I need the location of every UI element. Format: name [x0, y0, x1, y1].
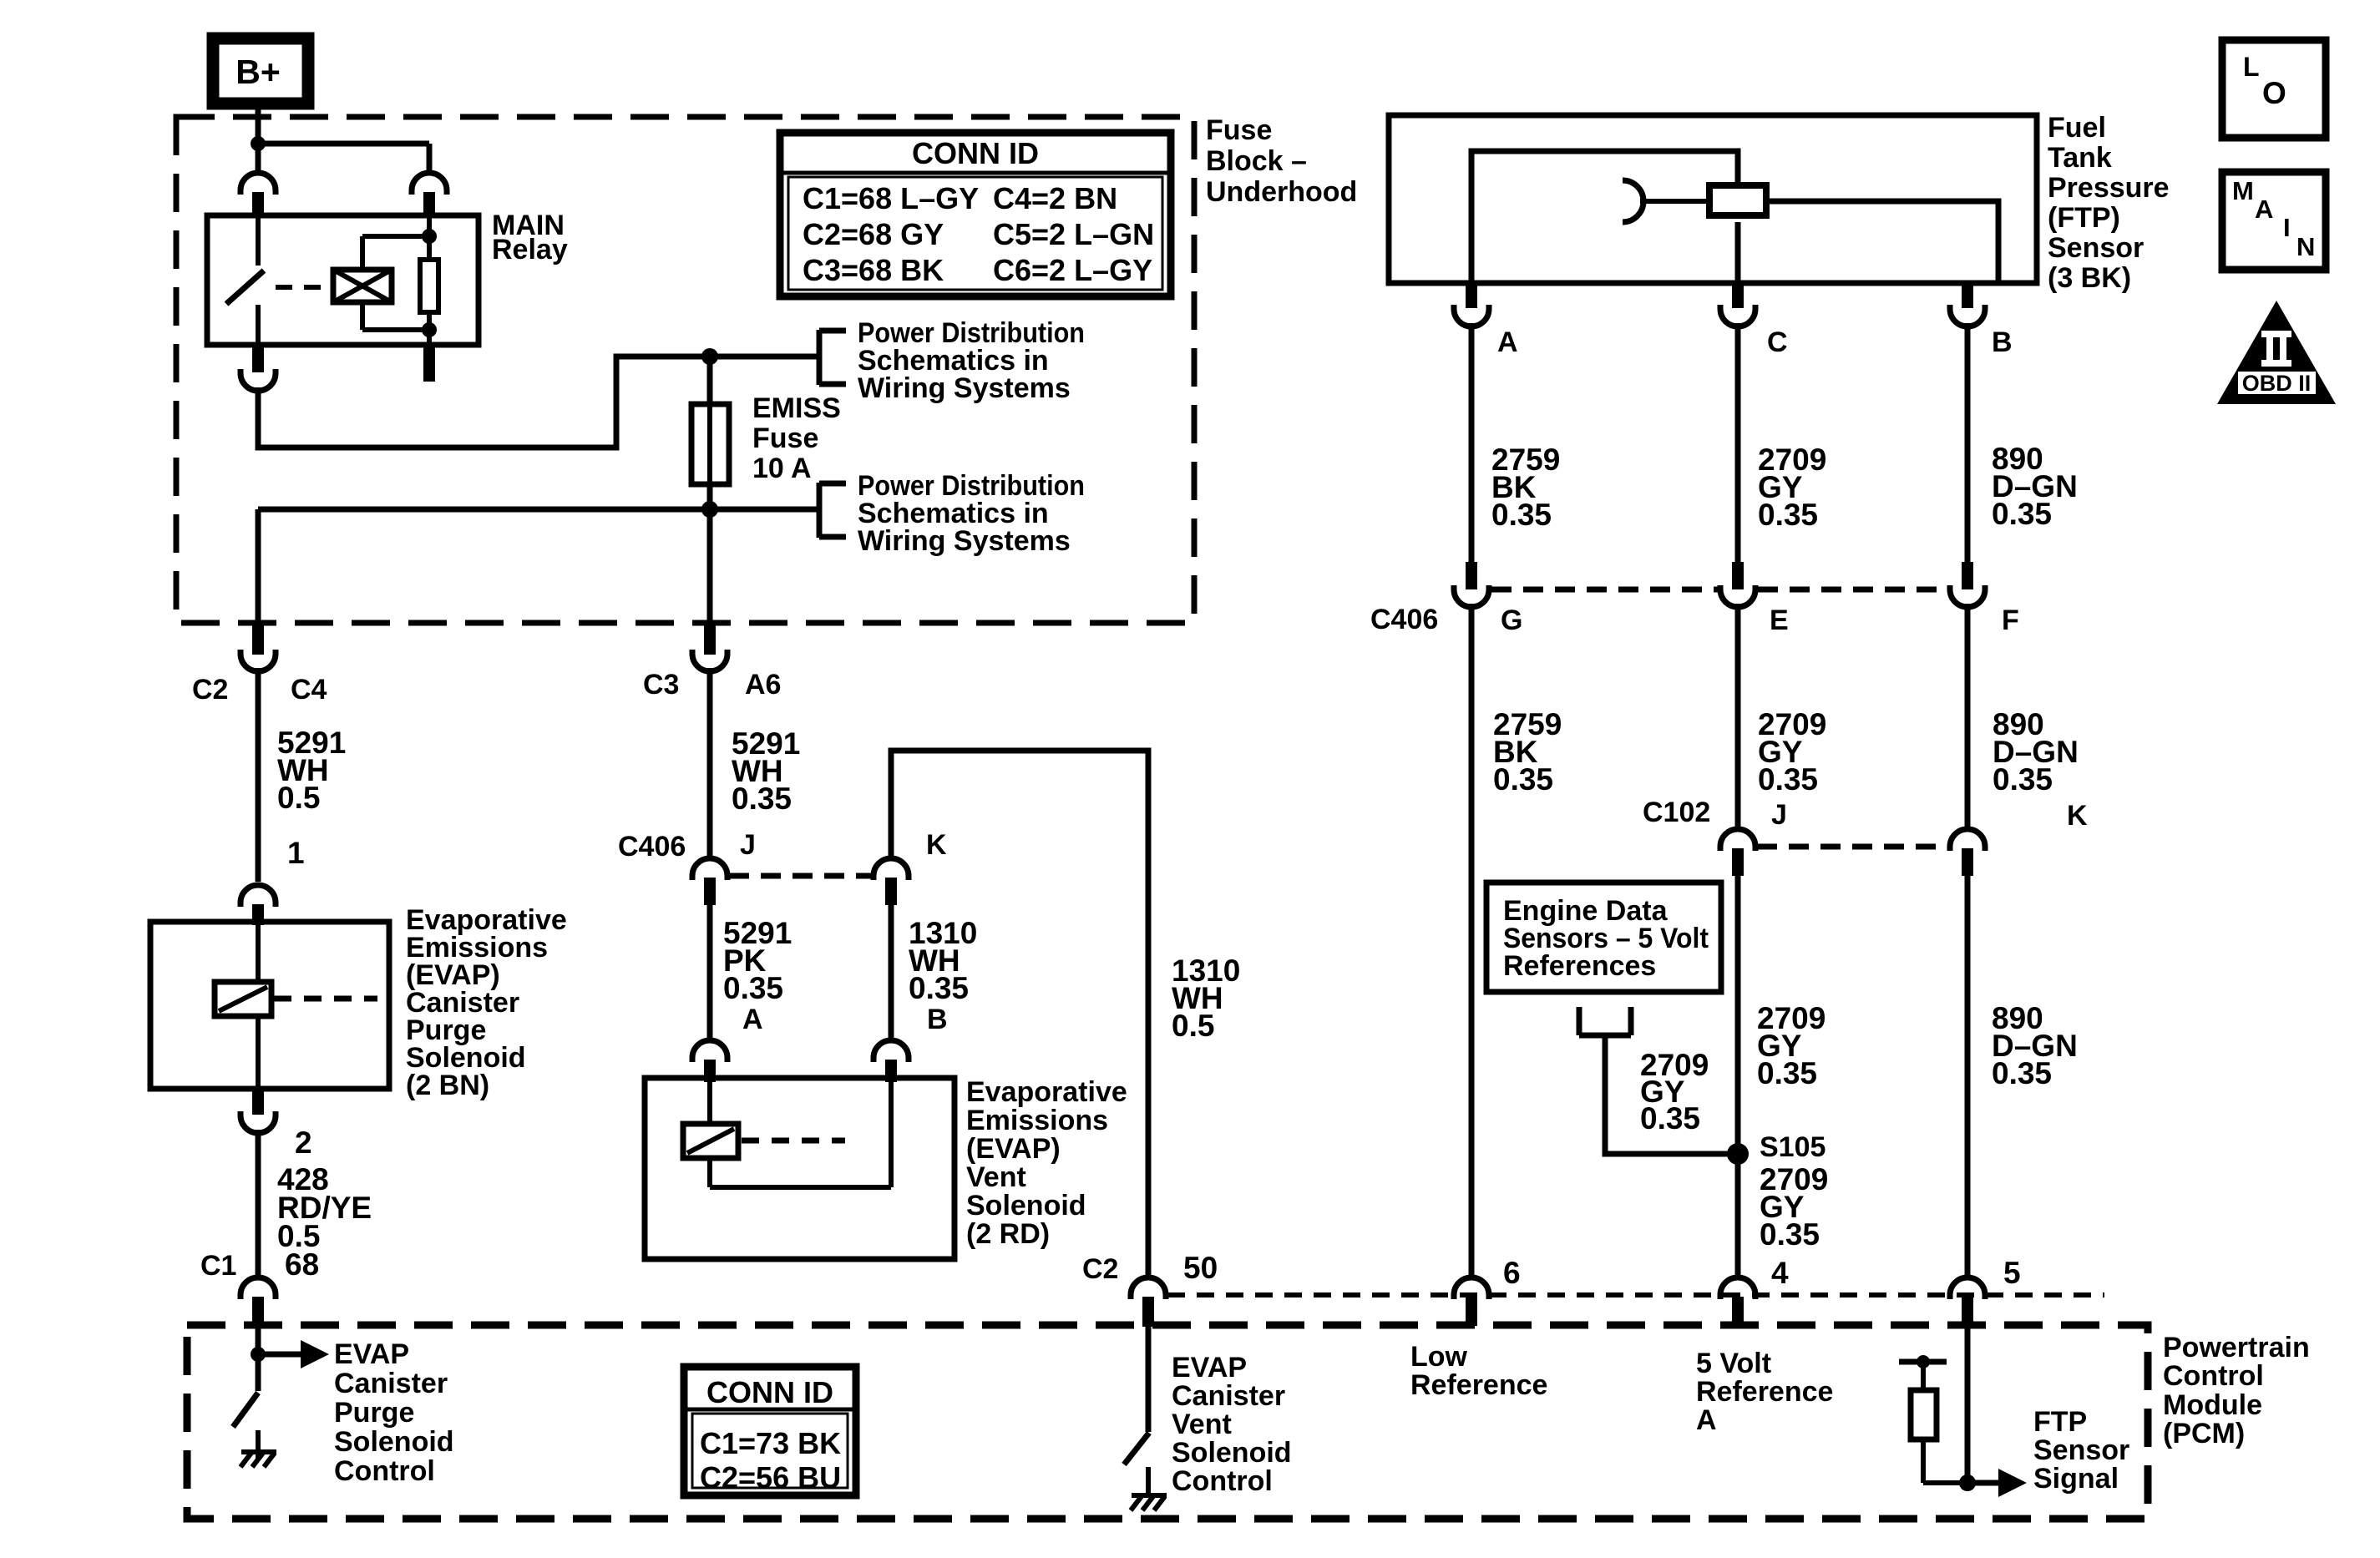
bracket power distribution 2: [817, 483, 823, 538]
relay resistor: [420, 260, 438, 312]
connector PCM 6: [1454, 1277, 1489, 1299]
wire 1310 WH 0.35: [889, 905, 894, 1038]
svg-text:0.35: 0.35: [1757, 1056, 1817, 1090]
wire 5291 WH 0.5: [256, 668, 261, 882]
wire 2709 GY 0.35 low: [1735, 876, 1741, 1275]
svg-text:10 A: 10 A: [752, 453, 812, 484]
purge solenoid coil: [256, 922, 261, 982]
power symbol B+: [213, 38, 308, 104]
svg-text:(2 RD): (2 RD): [966, 1218, 1050, 1250]
svg-text:Reference: Reference: [1410, 1369, 1547, 1401]
svg-text:C4=2 BN: C4=2 BN: [993, 181, 1117, 215]
svg-text:C3=68 BK: C3=68 BK: [803, 253, 944, 287]
svg-text:Canister: Canister: [1172, 1380, 1285, 1412]
svg-text:A6: A6: [745, 669, 781, 701]
icon LO box: [2222, 40, 2326, 138]
svg-text:Block –: Block –: [1206, 145, 1307, 177]
svg-text:0.5: 0.5: [277, 781, 320, 815]
svg-text:K: K: [2067, 800, 2088, 832]
svg-text:Fuel: Fuel: [2048, 112, 2106, 144]
connector relay output 87: [252, 345, 264, 372]
connector C2 C4: [252, 625, 264, 655]
svg-text:A: A: [742, 1004, 763, 1035]
relay coil: [333, 270, 392, 302]
svg-text:A: A: [1497, 326, 1518, 358]
svg-text:0.35: 0.35: [723, 971, 783, 1005]
connector C406 F: [1962, 562, 1973, 589]
svg-text:O: O: [2262, 76, 2286, 110]
svg-text:0.35: 0.35: [1640, 1101, 1700, 1136]
wire 890 D-GN 0.35 low: [1965, 876, 1971, 1275]
svg-text:68: 68: [285, 1247, 319, 1282]
wire 2709 GY 0.35 top: [1735, 323, 1741, 562]
relay MAIN box: [207, 215, 479, 345]
FTP transducer crescent: [1623, 180, 1643, 222]
svg-text:B: B: [927, 1004, 948, 1035]
connector C3 A6: [704, 625, 716, 655]
relay switch-coil dashed link: [276, 285, 332, 290]
svg-text:References: References: [1503, 950, 1656, 982]
svg-text:I: I: [2283, 213, 2291, 242]
svg-text:OBD II: OBD II: [2242, 371, 2312, 396]
svg-text:Solenoid: Solenoid: [334, 1426, 454, 1458]
connector C102 K: [1950, 829, 1985, 851]
switch purge: [233, 1393, 258, 1427]
wire C406 G-E dashed: [1491, 587, 1718, 593]
icon OBD II triangle: [2217, 301, 2336, 404]
fuse block underhood dashed box: [176, 117, 1194, 623]
svg-text:Low: Low: [1410, 1341, 1468, 1373]
svg-text:Control: Control: [334, 1455, 435, 1487]
svg-text:Tank: Tank: [2048, 142, 2112, 174]
svg-text:Vent: Vent: [966, 1161, 1026, 1193]
relay switch: [256, 215, 261, 266]
connector relay pin 30: [241, 173, 276, 195]
svg-text:Fuse: Fuse: [752, 422, 818, 454]
svg-text:Signal: Signal: [2033, 1463, 2119, 1495]
FTP sensor box: [1389, 115, 2037, 283]
svg-text:C3: C3: [643, 669, 679, 701]
svg-text:F: F: [2002, 604, 2019, 636]
svg-text:CONN ID: CONN ID: [706, 1375, 833, 1409]
arrow EVAP canister purge: [258, 1352, 302, 1358]
svg-text:0.35: 0.35: [1493, 762, 1553, 797]
svg-text:B+: B+: [235, 53, 281, 91]
svg-text:EVAP: EVAP: [1172, 1352, 1247, 1383]
svg-text:CONN ID: CONN ID: [912, 136, 1039, 170]
svg-text:B: B: [1992, 326, 2013, 358]
svg-text:Control: Control: [2163, 1360, 2264, 1392]
svg-text:0.5: 0.5: [1172, 1009, 1214, 1043]
bracket power distribution 1: [817, 330, 823, 385]
svg-text:5: 5: [2003, 1256, 2021, 1290]
wire B+ to relay: [256, 104, 261, 170]
svg-text:Pressure: Pressure: [2048, 172, 2170, 204]
svg-text:Sensor: Sensor: [2048, 232, 2144, 264]
connector stub engine data: [1577, 1007, 1582, 1035]
node purge arrow junction: [251, 1347, 266, 1362]
connector C2 50: [1131, 1277, 1166, 1299]
svg-text:0.35: 0.35: [732, 782, 792, 816]
svg-text:Module: Module: [2163, 1389, 2262, 1421]
wire 428 RD/YE 0.5: [256, 1130, 261, 1275]
svg-text:C1: C1: [200, 1250, 236, 1282]
wire fuse output bus: [258, 507, 817, 513]
svg-text:6: 6: [1503, 1256, 1521, 1290]
wire 2759 BK 0.35 mid: [1469, 604, 1475, 1275]
node fuse feed junction: [701, 348, 718, 365]
svg-text:C2=68 GY: C2=68 GY: [803, 217, 944, 251]
fuse EMISS 10A: [691, 404, 729, 484]
svg-text:4: 4: [1771, 1256, 1789, 1290]
svg-text:2: 2: [295, 1126, 312, 1160]
connector FTP pin A: [1466, 284, 1477, 308]
svg-text:0.35: 0.35: [1491, 498, 1552, 532]
svg-text:Relay: Relay: [492, 234, 568, 266]
svg-text:A: A: [2255, 195, 2273, 224]
svg-text:C5=2 L–GN: C5=2 L–GN: [993, 217, 1154, 251]
connector purge solenoid pin 2: [252, 1089, 264, 1115]
svg-text:Solenoid: Solenoid: [966, 1190, 1086, 1222]
svg-text:0.35: 0.35: [1992, 497, 2052, 531]
svg-text:Vent: Vent: [1172, 1409, 1232, 1440]
svg-text:G: G: [1501, 604, 1522, 636]
svg-text:Powertrain: Powertrain: [2163, 1332, 2310, 1363]
svg-text:E: E: [1770, 604, 1789, 636]
svg-text:EMISS: EMISS: [752, 392, 841, 424]
svg-text:0.35: 0.35: [1758, 762, 1818, 797]
connector PCM 4: [1720, 1277, 1755, 1299]
svg-text:C: C: [1767, 326, 1788, 358]
wire junction down to fuse: [707, 357, 713, 404]
node FTP signal junction: [1959, 1475, 1976, 1491]
svg-text:M: M: [2232, 176, 2254, 205]
engine data sensors box: [1486, 883, 1721, 992]
relay coil stub pin: [423, 345, 435, 382]
svg-text:50: 50: [1183, 1251, 1218, 1285]
FTP internal wiring: [1471, 151, 1738, 283]
connector PCM 5: [1950, 1277, 1985, 1299]
connector relay coil pin: [412, 173, 447, 195]
OBD II pillar: [2261, 331, 2291, 337]
svg-text:Wiring Systems: Wiring Systems: [858, 525, 1071, 557]
wire purge control: [256, 1326, 261, 1391]
wire C102 J-K dashed: [1757, 844, 1948, 850]
wire K up and over to C2 50: [891, 751, 1148, 1275]
svg-text:A: A: [1696, 1404, 1717, 1436]
FTP transducer element: [1709, 185, 1766, 215]
wire relay output to fuse: [258, 357, 817, 448]
svg-text:0.35: 0.35: [1758, 498, 1818, 532]
connector C1 68: [241, 1277, 276, 1299]
wire 2709 GY 0.35 branch: [1605, 1035, 1738, 1154]
svg-text:1: 1: [287, 836, 305, 870]
wire 2759 BK 0.35 top: [1469, 323, 1475, 562]
connector C406 K: [874, 858, 909, 880]
svg-text:C4: C4: [291, 674, 327, 706]
connector C102 J: [1720, 829, 1755, 851]
wire fuse output: [707, 484, 713, 509]
resistor pullup bar: [1899, 1359, 1947, 1365]
connector C406 E: [1732, 562, 1744, 589]
svg-text:Sensor: Sensor: [2033, 1434, 2129, 1466]
svg-text:C406: C406: [618, 831, 686, 862]
svg-text:S105: S105: [1760, 1131, 1826, 1163]
wire 890 D-GN 0.35 mid: [1965, 604, 1971, 827]
svg-text:(EVAP): (EVAP): [966, 1133, 1061, 1165]
svg-text:C406: C406: [1370, 604, 1438, 635]
icon MAIN box: [2222, 172, 2326, 270]
svg-text:Evaporative: Evaporative: [966, 1076, 1127, 1108]
svg-text:Emissions: Emissions: [966, 1105, 1108, 1136]
connector FTP pin B: [1962, 284, 1973, 308]
arrow FTP sensor signal: [1967, 1480, 2000, 1486]
svg-text:(3 BK): (3 BK): [2048, 262, 2131, 294]
svg-text:C1=73 BK: C1=73 BK: [700, 1426, 841, 1460]
svg-text:C1=68 L–GY: C1=68 L–GY: [803, 181, 979, 215]
wire C406 J-K dashed: [729, 873, 872, 879]
wire 2709 GY 0.35 mid: [1735, 604, 1741, 827]
svg-text:C2: C2: [1082, 1253, 1118, 1285]
EVAP vent solenoid box: [645, 1078, 955, 1259]
svg-text:L: L: [2243, 52, 2260, 82]
ground vent: [1131, 1495, 1167, 1510]
ground purge: [241, 1452, 276, 1467]
svg-text:Purge: Purge: [334, 1397, 414, 1429]
wire 5291 WH 0.35: [707, 668, 713, 856]
svg-text:FTP: FTP: [2033, 1406, 2087, 1438]
svg-text:0.35: 0.35: [1992, 1056, 2052, 1090]
svg-text:Underhood: Underhood: [1206, 176, 1357, 208]
wire junction to relay coil branch: [258, 141, 429, 147]
relay coil wiring: [427, 215, 432, 260]
svg-text:J: J: [1771, 799, 1787, 831]
svg-text:(2 BN): (2 BN): [406, 1070, 489, 1101]
svg-text:0.35: 0.35: [1760, 1217, 1820, 1252]
svg-text:Wiring Systems: Wiring Systems: [858, 372, 1071, 404]
wire FTP signal: [1965, 1326, 1971, 1483]
svg-text:(FTP): (FTP): [2048, 202, 2120, 234]
vent solenoid coil: [707, 1078, 712, 1124]
svg-text:C2=56 BU: C2=56 BU: [700, 1460, 841, 1495]
svg-text:Reference: Reference: [1696, 1376, 1833, 1408]
table CONN ID fuse block: [780, 133, 1171, 296]
svg-text:C6=2 L–GY: C6=2 L–GY: [993, 253, 1152, 287]
wire C406 E-F dashed: [1758, 587, 1947, 593]
wire PCM connector C2 dotted: [1167, 1292, 2104, 1297]
EVAP canister purge solenoid box: [150, 922, 389, 1089]
wire 5291 PK 0.35: [707, 905, 713, 1038]
node junction B+: [251, 136, 266, 151]
svg-text:Control: Control: [1172, 1465, 1273, 1497]
connector FTP pin C: [1732, 284, 1744, 308]
svg-text:C2: C2: [192, 674, 228, 706]
connector purge solenoid pin 1: [241, 885, 276, 907]
svg-text:0.35: 0.35: [909, 971, 969, 1005]
wire 890 D-GN 0.35 top: [1965, 323, 1971, 562]
svg-text:N: N: [2296, 232, 2315, 261]
node fuse output junction: [701, 501, 718, 518]
svg-text:C102: C102: [1643, 797, 1710, 828]
svg-text:Canister: Canister: [334, 1368, 448, 1399]
connector C406 G: [1466, 562, 1477, 589]
svg-text:5 Volt: 5 Volt: [1696, 1348, 1771, 1379]
switch vent: [1124, 1433, 1149, 1464]
connector C406 J: [692, 858, 727, 880]
svg-text:Fuse: Fuse: [1206, 114, 1272, 146]
table CONN ID PCM: [684, 1367, 856, 1495]
resistor FTP: [1911, 1390, 1937, 1439]
PCM dashed box: [187, 1325, 2148, 1519]
svg-text:EVAP: EVAP: [334, 1338, 409, 1370]
svg-text:(PCM): (PCM): [2163, 1418, 2245, 1449]
node S105: [1727, 1143, 1749, 1165]
svg-text:Solenoid: Solenoid: [1172, 1437, 1292, 1469]
wire vent control: [1146, 1327, 1152, 1432]
svg-text:J: J: [740, 829, 756, 861]
svg-text:0.35: 0.35: [1993, 762, 2053, 797]
svg-text:K: K: [926, 829, 947, 861]
